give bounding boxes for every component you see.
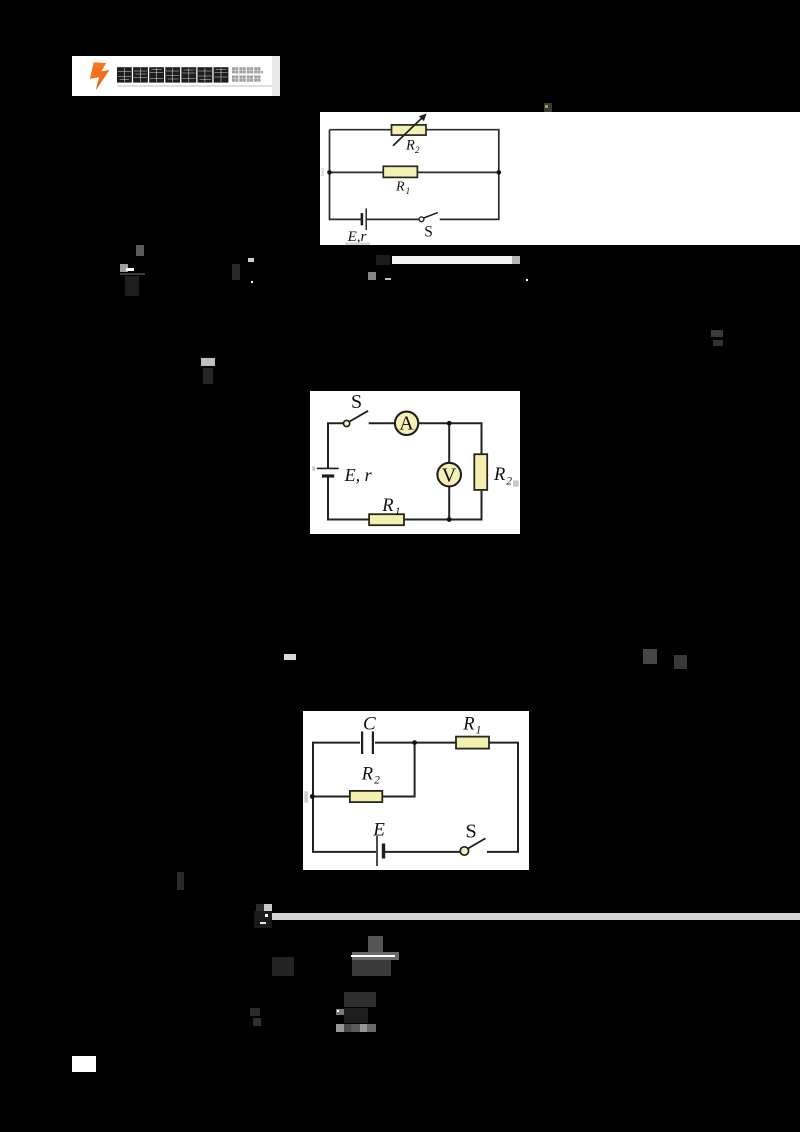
wire: R2 branch [313, 743, 415, 797]
svg-text:2: 2 [415, 145, 420, 155]
svg-text:E: E [372, 820, 385, 841]
battery E,r plates [317, 467, 339, 469]
gray strip under E,r [345, 243, 370, 246]
svg-text:C: C [363, 714, 376, 735]
svg-text:S: S [424, 224, 433, 241]
faint cluster A near (130,270) [136, 245, 144, 256]
rheostat arrow [393, 116, 424, 146]
switch S [460, 847, 468, 855]
faint mark (645,655) [643, 649, 657, 664]
svg-text:R: R [381, 496, 393, 516]
circuit 3 card [303, 711, 529, 870]
white fraction bar under circuit 1 [392, 256, 512, 264]
bottom-left white rect [72, 1056, 96, 1072]
logo underline [117, 85, 272, 87]
wires: outer loop [313, 743, 518, 852]
svg-text:R: R [395, 180, 405, 195]
logo card [72, 56, 280, 96]
circuit 1 card [320, 112, 800, 245]
faint cluster C near (380,270) [368, 272, 376, 280]
gray blocks left of answer bar [264, 904, 272, 911]
gray tick left edge [321, 168, 324, 176]
svg-text:1: 1 [476, 725, 482, 737]
node left [310, 794, 315, 799]
svg-text:S: S [465, 821, 476, 843]
resistor R2 (rheostat) [392, 125, 427, 135]
gray artifact right of R2 label [513, 480, 519, 486]
resistor R1 bottom [369, 514, 404, 525]
logo right gray band [272, 56, 280, 96]
faint mark (285,655) [284, 654, 296, 660]
faint mark (205,360) [201, 358, 215, 366]
switch S [419, 217, 424, 222]
logo small slogan line 1 [232, 67, 263, 82]
svg-text:V: V [442, 464, 457, 486]
ammeter A [395, 412, 418, 435]
voltmeter V [437, 463, 461, 487]
answer gray bar [272, 913, 800, 920]
wire: voltmeter branch [448, 423, 450, 519]
wires: main loop [328, 423, 482, 519]
svg-text:1: 1 [406, 186, 411, 196]
artifact square above circuit 1 [544, 103, 552, 112]
circuit 2 card [310, 391, 520, 534]
lower cluster (355,1010) [344, 992, 376, 1007]
gray tick left edge [312, 466, 315, 471]
svg-text:R: R [361, 764, 373, 784]
faint cluster B near (240,270) [232, 264, 240, 280]
battery E,r plates [361, 213, 364, 225]
node A left [327, 170, 332, 175]
svg-text:S: S [351, 391, 362, 413]
battery E plates [376, 836, 378, 866]
svg-text:1: 1 [395, 506, 401, 518]
faint cluster D near (525,270) [526, 279, 528, 281]
resistor R2 [350, 791, 382, 802]
svg-text:E, r: E, r [344, 465, 373, 485]
logo title 学科备考充电站 (pseudo-glyph blocks) [117, 67, 231, 83]
svg-text:2: 2 [506, 476, 512, 488]
fraction cluster (370,955) [368, 936, 383, 952]
wire: middle branch [330, 171, 499, 173]
faint mark (176,875) [177, 872, 184, 890]
svg-text:R: R [405, 137, 415, 153]
switch S [344, 420, 350, 426]
faint mark (680,660) [674, 655, 687, 669]
approx-equals faint marks [272, 957, 294, 976]
logo lightning bolt [88, 60, 112, 92]
node bottom [447, 517, 452, 522]
svg-text:R: R [493, 465, 505, 485]
faint mark (715,335) [711, 330, 723, 337]
svg-text:R: R [462, 715, 474, 735]
capacitor C plates [361, 732, 363, 755]
svg-text:A: A [399, 413, 414, 435]
svg-text:2: 2 [374, 774, 380, 786]
gray tick left edge [304, 791, 308, 802]
node top [447, 421, 452, 426]
resistor R1 [456, 737, 489, 749]
resistor R1 [383, 166, 417, 177]
wire: outer loop [330, 130, 499, 220]
resistor R2 vertical [474, 454, 487, 490]
node B right [497, 170, 502, 175]
node junction top [412, 740, 417, 745]
